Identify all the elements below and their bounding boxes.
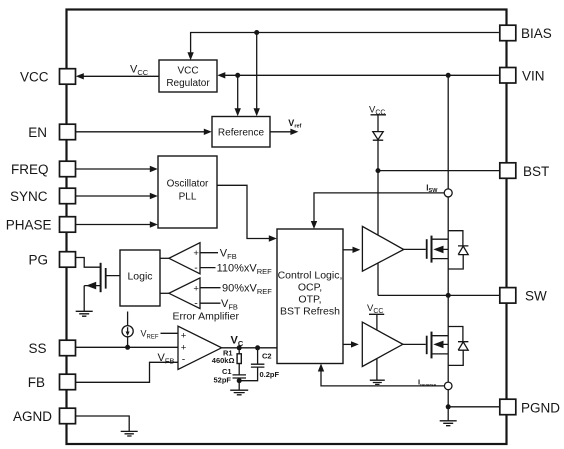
pin SS <box>28 340 75 356</box>
wire Control Logic to low side driver <box>343 341 359 347</box>
pin SYNC <box>10 188 76 204</box>
PG transistor ground <box>76 286 93 317</box>
pin FREQ <box>11 161 76 177</box>
node Vc R1 <box>237 345 242 350</box>
pin PG <box>28 252 75 268</box>
wire Oscillator to Control Logic <box>217 185 277 241</box>
wire SW rail <box>378 294 499 296</box>
pin VIN <box>500 68 545 84</box>
svg-text:VIN: VIN <box>522 69 545 84</box>
wire PHASE to Oscillator <box>76 221 158 227</box>
svg-text:SYNC: SYNC <box>10 189 48 204</box>
svg-text:-: - <box>182 354 186 366</box>
wire driver to Q2 gate <box>403 343 426 345</box>
svg-text:+: + <box>181 330 187 341</box>
svg-text:OCP,: OCP, <box>298 282 322 294</box>
pin AGND <box>13 408 76 424</box>
low driver supply tee <box>369 314 384 329</box>
svg-text:Logic: Logic <box>127 271 152 283</box>
comparator COMP2 <box>160 278 200 309</box>
wire VREF to error amp <box>161 332 179 334</box>
wire VIN node to Reference top <box>235 75 241 116</box>
node on BIAS wire <box>254 30 259 35</box>
error amplifier U2 <box>178 326 222 369</box>
node Vc C2 <box>255 345 260 350</box>
svg-text:PLL: PLL <box>179 192 197 203</box>
power ground symbol <box>440 407 457 426</box>
label Isw <box>426 183 438 194</box>
label C2 <box>262 352 272 361</box>
pin SW <box>500 288 547 304</box>
label 460k <box>212 356 235 365</box>
label 110%xVREF <box>217 263 273 277</box>
svg-text:+: + <box>193 283 199 294</box>
label VFB comp1 <box>220 247 237 261</box>
pin EN <box>28 124 75 140</box>
svg-text:PGND: PGND <box>521 401 560 416</box>
wire Ireverse to Control Logic bottom <box>318 364 445 386</box>
pin FB <box>28 374 76 390</box>
node BST junction <box>376 168 381 173</box>
comparator COMP2 inputs <box>200 288 221 304</box>
high side driver U3 <box>362 226 403 271</box>
Ireverse sense circle <box>444 382 452 390</box>
svg-text:Control Logic,: Control Logic, <box>278 270 343 282</box>
wire SS to error amp <box>76 346 179 348</box>
wire driver bottom to SW <box>377 263 379 295</box>
label R1 <box>223 349 233 358</box>
Isw sense circle <box>444 189 452 197</box>
block Reference <box>212 117 270 148</box>
body diode D1 <box>448 231 468 269</box>
block Oscillator PLL <box>158 156 217 228</box>
svg-text:460kΩ: 460kΩ <box>212 356 235 365</box>
low side driver U4 <box>362 322 403 366</box>
wire VIN rail down to Isw sensor <box>447 75 449 189</box>
wire BST rail <box>378 170 499 172</box>
svg-text:FREQ: FREQ <box>11 162 49 177</box>
svg-text:+: + <box>181 343 187 354</box>
current source Iss <box>122 312 133 348</box>
pin PGND <box>500 399 560 415</box>
transistor Q3 PG open drain <box>84 263 120 292</box>
svg-text:SS: SS <box>28 341 46 356</box>
svg-text:BIAS: BIAS <box>521 26 552 41</box>
block Logic <box>120 250 160 306</box>
wire Vref output <box>270 129 298 135</box>
label 90%xVREF <box>222 282 272 296</box>
svg-text:52pF: 52pF <box>214 376 232 385</box>
comparator COMP1 inputs <box>200 253 218 268</box>
transistor Q1 high side <box>427 236 449 263</box>
wire Control Logic to high side driver <box>343 247 360 253</box>
label Vc <box>231 335 244 348</box>
analog ground below C1 <box>230 381 248 395</box>
PG pullup wire <box>76 258 101 268</box>
svg-text:VCC: VCC <box>177 65 198 76</box>
resistor R1 <box>237 348 241 375</box>
svg-text:C2: C2 <box>262 352 272 361</box>
wire to PGND pin <box>448 406 499 408</box>
node VIN rail junction <box>446 73 451 78</box>
capacitor C1 <box>233 375 247 381</box>
label Vcc net <box>130 64 149 78</box>
IC boundary box <box>67 10 507 445</box>
svg-text:AGND: AGND <box>13 409 52 424</box>
svg-text:Error Amplifier: Error Amplifier <box>172 310 239 322</box>
pin VCC <box>20 69 76 85</box>
wire BIAS node to Reference top <box>254 33 260 117</box>
label C1 <box>222 367 232 376</box>
node SW junction <box>446 293 451 298</box>
svg-text:FB: FB <box>28 375 45 390</box>
label VREF <box>141 329 159 341</box>
wire Isw to high side drain <box>447 197 449 296</box>
label Vcc bootstrap <box>369 105 385 117</box>
wire FREQ to Oscillator <box>76 166 158 172</box>
wire FB to error amp <box>76 362 179 382</box>
svg-text:+: + <box>193 248 199 259</box>
block Control Logic <box>277 229 343 364</box>
svg-text:PHASE: PHASE <box>6 218 52 233</box>
node VIN wire to Reference <box>235 73 240 78</box>
wire VIN to VCC Regulator right <box>217 72 499 78</box>
node C1 C2 ground <box>237 378 242 383</box>
wire BIAS to VCC Regulator top <box>187 33 499 61</box>
capacitor C2 <box>239 348 264 381</box>
svg-text:OTP,: OTP, <box>298 294 321 306</box>
label 0.2pF <box>260 370 280 379</box>
wire VCC Regulator output to VCC pin <box>76 73 159 79</box>
wire AGND to ground <box>76 416 130 431</box>
wire error amp output Vc <box>222 347 277 349</box>
wire BST to driver top <box>377 171 379 235</box>
svg-text:Reference: Reference <box>218 127 265 138</box>
wire EN to Reference <box>76 129 212 135</box>
pin BIAS <box>500 25 552 41</box>
node PGND junction <box>446 404 451 409</box>
label Ireverse <box>418 378 437 388</box>
pin BST <box>500 163 549 179</box>
svg-text:SW: SW <box>525 289 547 304</box>
block VCC Regulator <box>159 60 217 92</box>
low driver ground <box>370 359 385 385</box>
svg-text:EN: EN <box>28 125 47 140</box>
svg-text:Oscillator: Oscillator <box>167 179 209 190</box>
transistor Q2 low side <box>427 332 449 359</box>
label VFB comp2 <box>221 298 238 312</box>
svg-text:-: - <box>194 262 198 274</box>
analog ground symbol AGND <box>121 431 138 436</box>
svg-text:VCC: VCC <box>20 70 49 85</box>
svg-text:-: - <box>194 297 198 309</box>
wire SYNC to Oscillator <box>76 193 158 199</box>
svg-text:PG: PG <box>28 253 48 268</box>
label 52pF <box>214 376 232 385</box>
node SS current source <box>125 345 130 350</box>
bootstrap supply tee <box>371 115 387 132</box>
svg-text:Regulator: Regulator <box>166 78 210 89</box>
wire driver to Q1 gate <box>404 248 426 250</box>
wire Irev to PGND node <box>447 390 449 407</box>
wire Isw sense to Control Logic top <box>311 193 444 229</box>
label Error Amplifier <box>172 310 239 322</box>
body diode D2 <box>448 327 468 366</box>
svg-text:BST Refresh: BST Refresh <box>280 306 340 318</box>
label Vref <box>288 118 301 130</box>
label Vcc low driver <box>367 303 383 315</box>
comparator COMP1 <box>160 243 200 274</box>
bootstrap diode <box>373 132 383 171</box>
wire SW to Q2 drain and source to Irev <box>447 295 449 382</box>
svg-text:BST: BST <box>523 164 549 179</box>
svg-text:0.2pF: 0.2pF <box>260 370 280 379</box>
label VFB error amp <box>157 352 176 365</box>
pin PHASE <box>6 217 76 233</box>
